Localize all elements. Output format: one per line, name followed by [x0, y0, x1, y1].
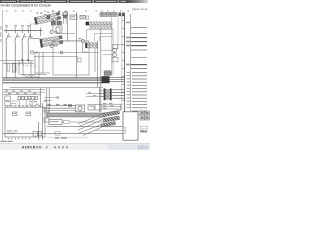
fuse F3 — [56, 27, 60, 33]
wire — [94, 48, 96, 72]
wire — [47, 126, 123, 128]
wire pair — [63, 13, 65, 24]
page left border — [2, 10, 4, 140]
lamp E3 — [50, 44, 53, 47]
connector T3b — [90, 26, 113, 29]
svg-text:Mod: Mod — [140, 130, 148, 134]
ground ticks — [8, 138, 30, 140]
wire — [75, 12, 77, 78]
wire — [31, 23, 38, 25]
resistor R2 — [95, 105, 101, 111]
wire — [112, 28, 114, 75]
wire — [47, 136, 88, 138]
window icons right — [138, 146, 148, 149]
harness wires to connectors — [78, 114, 103, 136]
crossing ticks — [18, 64, 36, 68]
wire labels — [48, 104, 67, 105]
motor M1 — [113, 48, 117, 52]
fuse cluster right — [140, 111, 149, 120]
wire — [62, 121, 105, 123]
harness band — [47, 113, 105, 117]
small pill box — [141, 126, 148, 129]
cluster inner labels — [7, 130, 18, 133]
inline connector X2 — [33, 131, 38, 136]
lamp labels — [35, 31, 58, 53]
junction bubbles — [21, 59, 23, 61]
switch labels — [8, 36, 32, 37]
wire labels — [103, 103, 113, 109]
wire — [39, 28, 41, 37]
wire — [44, 97, 58, 99]
switch S1 — [6, 31, 9, 61]
connector T4 — [104, 71, 112, 76]
wire — [117, 17, 119, 51]
motor M2 — [113, 53, 117, 57]
wire — [97, 41, 99, 87]
relay K7 — [44, 118, 49, 122]
blower motor M3 — [76, 105, 85, 112]
wire — [99, 87, 101, 112]
relay K8 — [49, 120, 62, 125]
wire rows into T5 — [86, 94, 104, 97]
label row above cluster — [6, 105, 41, 106]
inline connector X4 — [55, 131, 60, 135]
splice junction — [102, 76, 110, 83]
lamp E4 — [81, 40, 84, 43]
alternator box — [123, 112, 138, 140]
relay K4 — [5, 96, 10, 100]
wire — [111, 17, 113, 70]
switch S2 — [15, 31, 18, 61]
wire stub ladder lower — [132, 73, 147, 115]
relay K5 — [5, 102, 10, 106]
wire — [3, 133, 123, 135]
lamp E1 — [30, 51, 33, 54]
lamp E5 — [60, 51, 63, 54]
wire — [95, 129, 123, 131]
wire — [40, 88, 42, 107]
box pin labels — [124, 128, 126, 134]
wire — [44, 99, 52, 101]
relay K1b — [63, 15, 67, 19]
sensor box mid — [78, 58, 82, 62]
merge wires — [20, 73, 50, 78]
wire — [82, 51, 88, 53]
wire — [81, 43, 83, 52]
wire — [100, 28, 102, 112]
wire — [31, 38, 40, 40]
wire — [42, 103, 44, 140]
wire label box — [64, 121, 70, 124]
fuse pair right — [119, 13, 122, 17]
connector T9 — [85, 43, 97, 49]
svg-text:Figure 14-1a: Figure 14-1a — [133, 7, 148, 11]
sensor box above motors — [113, 45, 118, 49]
junction box — [63, 13, 68, 16]
connector labels — [37, 13, 47, 16]
terminal strip X1 — [18, 96, 38, 99]
browser tab bar — [0, 0, 148, 3]
ladder labels lower — [127, 72, 132, 108]
connector T8 — [101, 122, 116, 128]
wire rows center bottom — [46, 106, 76, 111]
wire labels — [5, 90, 36, 94]
connector T7 — [103, 116, 120, 122]
switch S3 — [22, 31, 25, 61]
wire rows right-low — [101, 104, 122, 109]
gauge G1 — [13, 112, 17, 116]
bus wire left — [4, 30, 43, 32]
wire — [120, 104, 122, 111]
resistor R1 — [88, 105, 94, 111]
footer caption — [1, 138, 68, 142]
relay K1 — [51, 21, 62, 26]
component labels — [47, 11, 67, 13]
connector T1 — [34, 12, 61, 25]
wire stub ladder upper — [131, 28, 147, 69]
instrument cluster box — [5, 107, 45, 137]
relay K3b — [86, 16, 89, 19]
switch S4 — [28, 31, 31, 61]
fuse F1 — [12, 64, 16, 73]
status bar — [0, 144, 150, 150]
wire — [30, 24, 32, 39]
trunk pin labels — [122, 20, 124, 101]
nav icons left — [22, 146, 37, 148]
main harness bus — [3, 78, 103, 80]
wire — [101, 45, 125, 55]
vertical trunk wires right — [121, 14, 123, 110]
splice mark — [57, 96, 59, 98]
wire — [67, 12, 69, 41]
sensor box under motors — [112, 57, 118, 62]
nav icons mid — [54, 146, 68, 148]
wire labels — [88, 92, 96, 96]
wire rows mid — [46, 34, 82, 41]
wire rows below bus left — [3, 90, 45, 95]
wire — [11, 100, 33, 107]
wire — [110, 78, 125, 82]
relay K3 — [80, 16, 85, 19]
left margin vertical label — [0, 26, 1, 42]
wire — [53, 18, 62, 33]
component box B1 — [53, 41, 89, 75]
ladder labels upper — [126, 22, 130, 66]
connector T2 — [39, 35, 63, 47]
connector T6 — [103, 110, 120, 116]
svg-text:On-Bd Consolidated B for Consu: On-Bd Consolidated B for Consum — [1, 4, 52, 8]
wire stubs up — [6, 27, 28, 31]
relay K2 — [70, 15, 77, 19]
lamp E2 — [50, 30, 53, 33]
vertical feed wires to bus — [6, 53, 43, 78]
grid reference ticks — [6, 10, 129, 11]
wire — [38, 122, 40, 140]
relay K1a — [47, 15, 51, 19]
wire rows mid-left — [0, 53, 99, 64]
node labels above bus — [5, 25, 30, 26]
connector T3 — [86, 22, 89, 26]
inline connector X3 — [38, 132, 42, 136]
connector T5 — [104, 89, 112, 101]
control unit J1 outline — [87, 30, 114, 42]
fuse F2 — [7, 64, 9, 72]
fuse row top right — [100, 12, 117, 16]
gauge G2 — [26, 112, 31, 116]
wire — [112, 90, 125, 98]
relay K6 — [44, 108, 49, 112]
wire — [47, 88, 49, 118]
wire labels — [29, 101, 46, 105]
